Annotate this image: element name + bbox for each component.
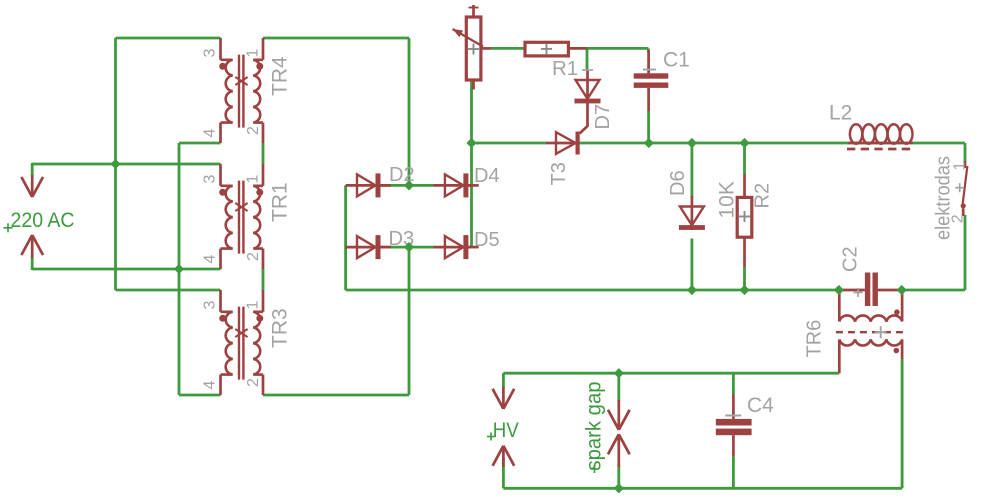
svg-text:2: 2 <box>245 252 262 261</box>
svg-text:1: 1 <box>245 175 262 184</box>
svg-text:R1: R1 <box>552 57 578 80</box>
svg-text:C4: C4 <box>747 394 774 417</box>
svg-text:2: 2 <box>245 378 262 387</box>
svg-text:spark gap: spark gap <box>583 382 606 471</box>
svg-text:4: 4 <box>202 129 219 138</box>
svg-text:3: 3 <box>202 49 219 58</box>
svg-text:D7: D7 <box>592 104 614 130</box>
svg-text:10K: 10K <box>715 181 738 218</box>
svg-text:C2: C2 <box>840 246 862 272</box>
svg-text:L2: L2 <box>829 102 852 125</box>
svg-text:4: 4 <box>202 381 219 390</box>
svg-text:3: 3 <box>202 175 219 184</box>
svg-text:HV: HV <box>493 419 519 442</box>
svg-text:T3: T3 <box>548 162 570 185</box>
svg-text:1: 1 <box>245 301 262 310</box>
svg-text:220 AC: 220 AC <box>11 209 75 232</box>
svg-text:TR1: TR1 <box>269 182 292 222</box>
svg-text:R2: R2 <box>752 183 774 209</box>
svg-text:D5: D5 <box>474 229 500 251</box>
svg-text:TR6: TR6 <box>804 320 826 358</box>
svg-text:C1: C1 <box>663 49 690 72</box>
svg-text:D6: D6 <box>667 170 689 196</box>
svg-text:1: 1 <box>952 162 969 171</box>
svg-text:3: 3 <box>202 301 219 310</box>
svg-text:2: 2 <box>245 126 262 135</box>
svg-text:TR4: TR4 <box>269 56 292 96</box>
svg-text:4: 4 <box>202 255 219 264</box>
svg-text:2: 2 <box>950 214 967 223</box>
svg-text:TR3: TR3 <box>269 308 292 348</box>
svg-text:1: 1 <box>245 49 262 58</box>
svg-text:D4: D4 <box>474 165 500 187</box>
